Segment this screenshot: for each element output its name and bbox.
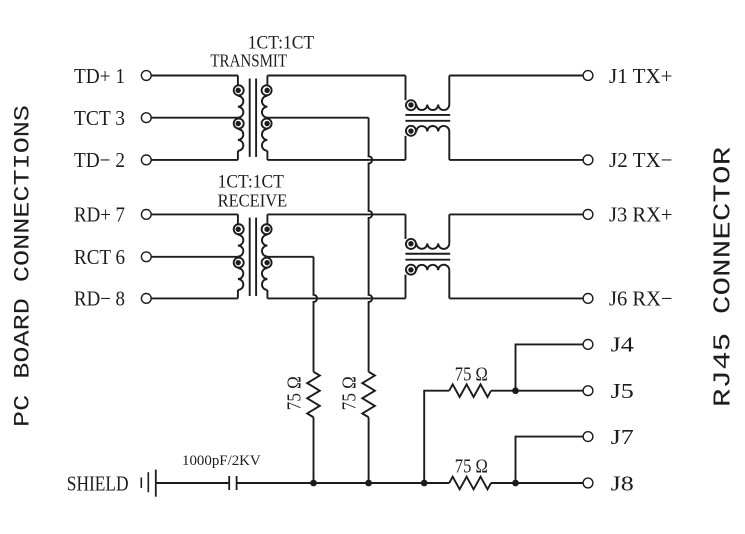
svg-text:TRANSMIT: TRANSMIT [210, 50, 287, 70]
wire node RCT vertical (with crossover hop) [314, 257, 318, 372]
svg-text:J5: J5 [611, 379, 634, 403]
wire T2 secondary center-tap to node [267, 256, 313, 258]
terminal J5 open-circle pad [583, 386, 593, 396]
transformer T2 RECEIVE primary winding [234, 214, 244, 298]
svg-text:J7: J7 [611, 425, 634, 449]
transformer T2 RECEIVE secondary phase dot (top) [264, 227, 269, 232]
common-mode choke L2 (receive) top winding [406, 214, 450, 249]
wire shield to capacitor C1 [156, 482, 229, 484]
capacitor C1 1000pF/2KV [229, 476, 236, 490]
resistor R2 75ohm (TCT termination) [362, 372, 375, 418]
terminal J1 open-circle pad [583, 71, 593, 81]
wire choke to J6 [449, 297, 583, 299]
transformer T1 TRANSMIT core [250, 79, 256, 157]
wire choke to J3 [449, 213, 583, 215]
common-mode choke L1 (transmit) core [405, 115, 450, 121]
svg-text:RCT 6: RCT 6 [74, 245, 125, 269]
wire node TCT vertical (with crossover hops) [369, 118, 373, 372]
svg-text:TD− 2: TD− 2 [74, 148, 125, 172]
terminal TCT open-circle pad [141, 113, 151, 123]
wire RCT terminal to transformer [151, 256, 238, 258]
wire TD+ terminal to transformer [151, 75, 238, 77]
junction node J8-row [512, 480, 519, 487]
svg-text:TD+ 1: TD+ 1 [74, 64, 125, 88]
wire choke to J1 [449, 75, 583, 77]
junction node R2/shield bus [365, 480, 372, 487]
resistor R1 75ohm (RCT termination) [307, 372, 320, 418]
terminal TD+ open-circle pad [141, 71, 151, 81]
svg-text:J1 TX+: J1 TX+ [609, 64, 673, 88]
terminal RD- open-circle pad [141, 294, 151, 304]
svg-text:TCT 3: TCT 3 [74, 106, 125, 130]
svg-text:75 Ω: 75 Ω [455, 363, 488, 385]
common-mode choke L2 (receive) top winding phase dot [408, 241, 413, 246]
svg-text:75 Ω: 75 Ω [455, 456, 488, 478]
junction node R1/shield bus [310, 480, 317, 487]
svg-text:RD− 8: RD− 8 [74, 287, 125, 311]
svg-text:1CT:1CT: 1CT:1CT [218, 171, 284, 192]
terminal J2 open-circle pad [583, 155, 593, 165]
common-mode choke L1 (transmit) bottom winding phase dot [408, 128, 413, 133]
resistor R3 75ohm [449, 384, 491, 397]
wire T1 secondary top to choke L1 [267, 75, 405, 77]
terminal J3 open-circle pad [583, 210, 593, 220]
terminal J8 open-circle pad [583, 478, 593, 488]
common-mode choke L1 (transmit) top winding phase dot [408, 102, 413, 107]
transformer T1 TRANSMIT secondary phase dot (center-tap) [264, 121, 269, 126]
svg-text:75 Ω: 75 Ω [339, 376, 361, 410]
wire RD- terminal to transformer [151, 297, 238, 299]
svg-text:75 Ω: 75 Ω [283, 376, 305, 410]
wire TD- terminal to transformer [151, 159, 238, 161]
svg-text:J4: J4 [611, 333, 634, 357]
wire R2 bottom to shield bus [368, 417, 370, 483]
terminal J7 open-circle pad [583, 432, 593, 442]
wire RD+ terminal to transformer [151, 213, 238, 215]
terminal RCT open-circle pad [141, 252, 151, 262]
terminal J6 open-circle pad [583, 294, 593, 304]
wire node to J5 [516, 390, 584, 392]
common-mode choke L1 (transmit) bottom winding [406, 126, 450, 160]
svg-text:SHIELD: SHIELD [67, 471, 129, 495]
wire TCT terminal to transformer [151, 117, 238, 119]
junction node J5-row [512, 387, 519, 394]
common-mode choke L2 (receive) bottom winding phase dot [408, 267, 413, 272]
svg-text:RECEIVE: RECEIVE [218, 191, 288, 211]
transformer T2 RECEIVE primary phase dot (center-tap) [236, 260, 241, 265]
transformer T2 RECEIVE core [250, 218, 256, 296]
wire R4 to J8 node [491, 482, 583, 484]
wire T1 secondary center-tap to node [267, 117, 368, 119]
svg-text:J2 TX−: J2 TX− [609, 148, 673, 172]
transformer T1 TRANSMIT primary winding [234, 76, 244, 160]
svg-text:J6 RX−: J6 RX− [609, 287, 673, 311]
svg-text:J3 RX+: J3 RX+ [609, 203, 673, 227]
wire capacitor to shield bus [237, 482, 450, 484]
wire T1 secondary bottom to choke L1 [267, 159, 405, 161]
wire J5-row left segment [424, 391, 449, 483]
terminal J4 open-circle pad [583, 340, 593, 350]
transformer T1 TRANSMIT secondary winding [262, 76, 272, 160]
shield chassis symbol [141, 470, 156, 497]
common-mode choke L2 (receive) bottom winding [406, 265, 450, 299]
transformer T1 TRANSMIT secondary phase dot (top) [264, 88, 269, 93]
transformer T1 TRANSMIT primary phase dot (top) [236, 88, 241, 93]
wire choke to J2 [449, 159, 583, 161]
transformer T2 RECEIVE secondary winding [262, 214, 272, 298]
wire node to J4 [516, 344, 584, 390]
common-mode choke L2 (receive) core [405, 254, 450, 260]
transformer T2 RECEIVE primary phase dot (top) [236, 227, 241, 232]
wire node to J7 [516, 437, 584, 483]
wire R3 to J5 node [491, 390, 516, 392]
svg-text:1000pF/2KV: 1000pF/2KV [182, 452, 261, 469]
transformer T1 TRANSMIT primary phase dot (center-tap) [236, 121, 241, 126]
resistor R4 75ohm [449, 477, 491, 490]
transformer T2 RECEIVE secondary phase dot (center-tap) [264, 260, 269, 265]
terminal RD+ open-circle pad [141, 210, 151, 220]
svg-text:PC BOARD CONNECTIONS: PC BOARD CONNECTIONS [11, 105, 36, 427]
wire T2 secondary top to choke L2 [267, 213, 405, 215]
wire T2 secondary bottom to choke L2 [267, 297, 405, 299]
common-mode choke L1 (transmit) top winding [406, 76, 450, 111]
svg-text:RJ45 CONNECTOR: RJ45 CONNECTOR [711, 147, 738, 407]
terminal TD- open-circle pad [141, 155, 151, 165]
svg-text:J8: J8 [611, 471, 634, 495]
wire R1 bottom to shield bus [313, 417, 315, 483]
junction node J5-drop/shield bus [421, 480, 428, 487]
svg-text:RD+ 7: RD+ 7 [74, 203, 125, 227]
